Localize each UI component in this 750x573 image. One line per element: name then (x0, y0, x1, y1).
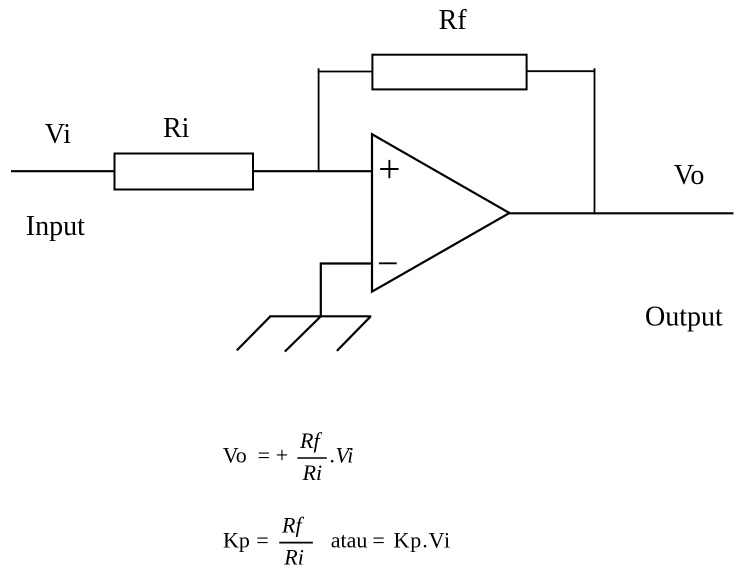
op-amp U1 (372, 134, 510, 291)
wire feedback top-left (318, 71, 373, 73)
plus sign noninverting (380, 160, 398, 178)
svg-text:Output: Output (645, 301, 723, 332)
wire Ri to op-amp (253, 170, 372, 172)
wire feedback top-right (527, 70, 596, 72)
svg-text:Rf: Rf (281, 512, 304, 537)
svg-text:Kp.Vi: Kp.Vi (394, 528, 452, 553)
svg-text:Rf: Rf (299, 428, 322, 453)
wire feedback right vertical (594, 68, 596, 214)
svg-text:atau: atau (331, 528, 368, 553)
svg-text:Input: Input (26, 211, 85, 242)
svg-text:=: = (372, 528, 384, 553)
svg-text:Rf: Rf (439, 5, 468, 36)
svg-text:=: = (256, 528, 268, 553)
svg-text:Vo: Vo (674, 160, 705, 191)
svg-text:Kp: Kp (223, 528, 250, 553)
svg-text:.Vi: .Vi (330, 442, 353, 467)
equation 2 Kp = Rf/Ri atau = Kp.Vi (223, 512, 451, 569)
ground (237, 316, 371, 351)
resistor Rf (372, 55, 526, 90)
svg-text:Ri: Ri (283, 544, 304, 569)
wire feedback left vertical (318, 68, 320, 172)
svg-text:Vo: Vo (223, 443, 247, 468)
equation 1 Vo = + Rf/Ri .Vi (223, 428, 354, 485)
wire inverting input (321, 262, 372, 264)
wire input (11, 170, 115, 172)
svg-text:Vi: Vi (45, 119, 72, 150)
minus sign inverting (379, 262, 397, 264)
svg-text:=: = (258, 443, 270, 468)
resistor Ri (115, 154, 254, 190)
svg-text:+: + (276, 443, 288, 468)
svg-text:Ri: Ri (302, 460, 323, 485)
wire to ground (320, 263, 322, 317)
wire output (510, 212, 734, 214)
svg-text:Ri: Ri (163, 113, 190, 144)
